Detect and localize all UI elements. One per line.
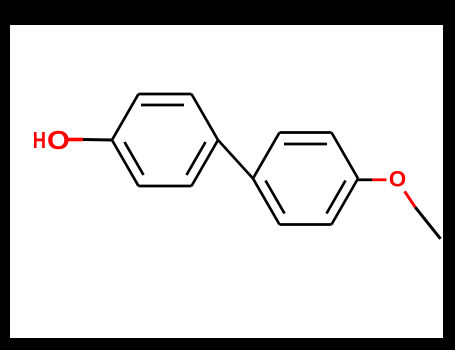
svg-text:H: H	[33, 128, 46, 154]
wire edge R-BR	[192, 140, 219, 186]
wire edge TR-R	[192, 94, 219, 140]
left ring benzene	[112, 94, 218, 186]
bond inter-ring	[218, 140, 253, 179]
wire edge TL-TR	[139, 93, 192, 96]
bond O-CH3 black half	[415, 207, 440, 239]
frame bottom strip	[0, 338, 455, 350]
double bond inner top	[141, 104, 184, 107]
wire edge L-TL	[253, 133, 280, 179]
wire edge BR-BL	[280, 223, 332, 226]
right ring benzene	[253, 133, 358, 225]
bond C4'-O red half	[372, 178, 387, 181]
frame top strip	[0, 0, 455, 25]
wire edge L-TL	[112, 94, 139, 140]
wire edge BL-L	[253, 179, 280, 225]
wire edge BR-BL	[139, 185, 192, 188]
bond O-C1 red half	[68, 138, 83, 142]
double bond inner lower-left	[125, 142, 144, 175]
bond C4'-O black half	[358, 178, 372, 181]
svg-text:O: O	[389, 167, 406, 192]
bond O-CH3 red half	[405, 191, 416, 207]
wire edge BL-L	[112, 140, 139, 186]
svg-text:O: O	[47, 126, 70, 155]
double bond inner lower-right	[327, 181, 346, 214]
frame left strip	[0, 0, 10, 350]
double bond inner lower-right	[187, 142, 206, 175]
double bond inner top	[284, 143, 327, 146]
wire edge TR-R	[332, 133, 359, 179]
wire edge TL-TR	[280, 131, 332, 134]
wire edge R-BR	[332, 179, 359, 225]
bond O-C1 black half	[83, 138, 112, 142]
double bond inner lower-left	[266, 181, 285, 214]
frame right strip	[443, 0, 455, 350]
